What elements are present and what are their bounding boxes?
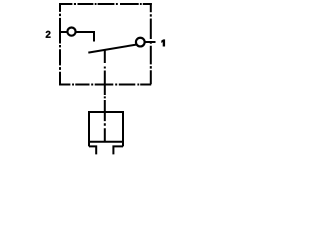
actuator box outline xyxy=(89,112,123,146)
actuator piston plate line xyxy=(89,141,123,143)
actuator left bottom bracket with prong xyxy=(89,146,96,154)
label terminal 2 xyxy=(46,31,51,38)
enclosure dash-dot boundary bottom side xyxy=(59,84,152,86)
label terminal 1 xyxy=(162,40,165,46)
terminal circle 1 xyxy=(136,38,145,47)
terminal circle 2 xyxy=(67,28,75,36)
mechanical link dash-dot line xyxy=(104,50,106,142)
wire: terminal 2 lead and fixed contact hook xyxy=(59,32,94,42)
actuator right bottom bracket with prong xyxy=(113,146,123,154)
enclosure dash-dot boundary left side xyxy=(59,3,61,85)
switch blade (movable contact) xyxy=(88,45,136,53)
wire: terminal 1 lead xyxy=(140,41,156,43)
enclosure dash-dot boundary right side xyxy=(150,3,152,85)
enclosure dash-dot boundary top side xyxy=(59,3,152,5)
